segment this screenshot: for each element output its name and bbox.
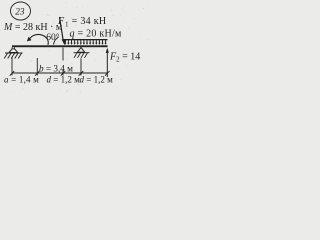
svg-text:q = 20 кН/м: q = 20 кН/м — [70, 29, 122, 40]
dimension slash ticks — [10, 71, 110, 76]
left support ground hatching — [4, 53, 22, 59]
left pin support — [9, 47, 18, 53]
middle roller support — [77, 48, 84, 53]
svg-text:F2 = 14: F2 = 14 — [109, 52, 140, 64]
distributed load arrows — [65, 40, 105, 43]
force F1 arrow — [60, 17, 64, 41]
dimension extension line at left support — [11, 58, 13, 76]
svg-text:a = 1,4 м: a = 1,4 м — [4, 75, 39, 85]
figure number circle 23 — [11, 2, 31, 20]
scan noise speckles — [4, 2, 149, 97]
moment arc arrowhead — [27, 37, 32, 42]
svg-text:F1 = 34 кН: F1 = 34 кН — [57, 16, 106, 28]
svg-text:b = 3,4 м: b = 3,4 м — [39, 64, 73, 74]
svg-text:23: 23 — [15, 8, 25, 18]
dimension extension line at F1 point — [62, 48, 64, 61]
60 deg angle arc — [54, 37, 59, 45]
beam — [12, 45, 108, 47]
force F2 arrow (up) with extension below — [106, 50, 108, 78]
svg-text:d = 1,2 м: d = 1,2 м — [80, 75, 114, 85]
svg-text:M = 28 кН · м: M = 28 кН · м — [3, 22, 63, 33]
dimension line — [12, 72, 107, 74]
distributed load q top bar — [64, 39, 108, 40]
moment arc M — [29, 34, 48, 44]
dimension extension line at middle support — [80, 58, 82, 75]
dimension extension line at x=37 — [36, 58, 38, 76]
svg-text:d = 1,2 м: d = 1,2 м — [47, 75, 81, 85]
middle support ground hatching — [74, 53, 90, 58]
